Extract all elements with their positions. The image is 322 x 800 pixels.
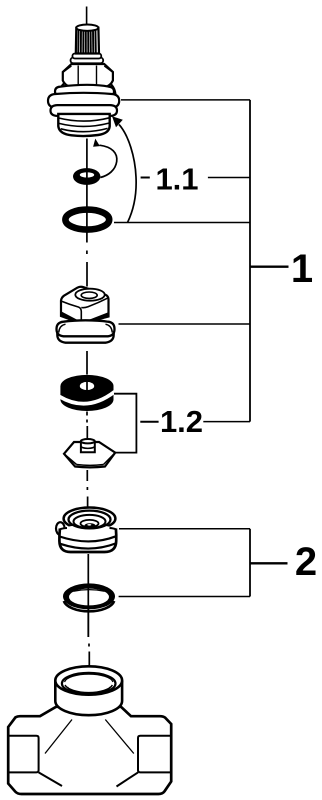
left bottom chamfer (39, 772, 62, 786)
centerline segment 3 (86, 262, 88, 287)
bushing groove arcs (60, 536, 117, 541)
cartridge rim band (55, 85, 114, 97)
svg-text:1.1: 1.1 (155, 162, 198, 197)
centerline segment 5 (86, 426, 88, 440)
centerline through disc hole (86, 382, 88, 391)
leader line 1.2 to bracket 1 (203, 421, 250, 423)
cartridge hex nut (63, 64, 113, 89)
boss thread rings (65, 685, 112, 693)
cartridge bonnet dome (59, 78, 116, 97)
o-ring large (65, 210, 109, 230)
spindle base collar (72, 54, 101, 59)
seal disc 1.2 (black) (59, 375, 114, 411)
leader line large o-ring to bracket (114, 222, 250, 224)
svg-text:2: 2 (295, 540, 317, 584)
spindle base ring 2 (71, 58, 104, 64)
body fillet left (45, 720, 72, 754)
flat seal washer (63, 583, 115, 611)
curved arrow small (o-ring 1.1 to cartridge stem) (100, 145, 117, 177)
centerline segment 6 (86, 470, 88, 481)
hex nut (64, 439, 115, 467)
dash before label 2 (250, 562, 288, 564)
valve body boss (55, 666, 122, 715)
centerline dot (88, 644, 90, 647)
boss rim inner (62, 673, 116, 694)
seal disc hole (80, 382, 94, 390)
centerline dot (86, 487, 88, 490)
centerline through washer (87, 584, 89, 637)
bushing left tab (56, 522, 65, 535)
bushing top ring outer (64, 508, 116, 530)
leader line cartridge to bracket 1 (121, 99, 250, 101)
curved arrow large (to cartridge thread) (119, 125, 136, 223)
right bottom chamfer (117, 772, 139, 786)
adapter hole inner (81, 292, 97, 298)
spindle top ellipse (76, 25, 98, 31)
adapter hole outer (75, 289, 104, 301)
centerline dot (86, 251, 88, 255)
centerline dash below disc (86, 412, 88, 416)
leader line washer to bracket 2 (119, 596, 250, 598)
adapter flange (57, 320, 115, 336)
leader line 1.1 to bracket (208, 177, 250, 179)
leader dash before 1.1 text (141, 177, 150, 179)
bushing body (59, 525, 116, 553)
adapter shadow left (62, 312, 82, 326)
centerline segment 7 (87, 497, 89, 524)
adapter body (61, 287, 109, 324)
cartridge rib 3 (51, 105, 118, 116)
spindle knurl lines (78, 30, 96, 54)
hex adapter (57, 287, 115, 343)
adapter flange end curves (59, 324, 113, 332)
adapter top face edges (61, 301, 81, 324)
leader line hex adapter to bracket (119, 323, 251, 325)
body fillet right (105, 720, 134, 754)
valve cartridge (48, 25, 119, 137)
bracket 1 vertical (249, 100, 251, 422)
dash before 1.2 text (140, 421, 158, 423)
right face lines (138, 736, 171, 773)
bushing top ring inner (69, 511, 111, 529)
o-ring 1.1 (small) (73, 168, 100, 185)
bracket 2 vertical (249, 529, 251, 597)
adapter flange lower band (57, 331, 113, 343)
left face lines (8, 736, 38, 773)
spindle body (76, 28, 99, 54)
seal disc groove (white) (59, 392, 114, 404)
centerline top segment (86, 7, 88, 26)
centerline dot below disc (86, 420, 88, 423)
centerline segment 8 (87, 554, 89, 637)
centerline segment 4 (86, 351, 88, 375)
1.2 bracket (112, 394, 137, 453)
nut boss (81, 441, 95, 452)
dash before label 1 (250, 266, 289, 268)
centerline segment 9 (88, 652, 90, 706)
svg-text:1.2: 1.2 (160, 404, 203, 439)
svg-text:1: 1 (291, 247, 313, 291)
cartridge rib 2 (48, 93, 119, 109)
centerline segment 2 (through o-rings) (86, 139, 88, 243)
cartridge threaded bottom (58, 114, 109, 136)
extension bushing (56, 508, 116, 553)
adapter shadow right (85, 312, 109, 325)
valve body outline (8, 666, 171, 794)
leader line bushing to bracket 2 (119, 528, 250, 530)
